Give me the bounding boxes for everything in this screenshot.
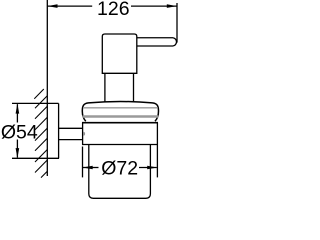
dimension line 126 (right segment) xyxy=(131,5,177,7)
Ø72 dimension line xyxy=(83,167,99,169)
svg-text:Ø72: Ø72 xyxy=(101,158,138,180)
126 left arrow xyxy=(47,4,57,8)
126 right arrow xyxy=(167,4,177,8)
svg-text:126: 126 xyxy=(97,0,130,20)
pump head xyxy=(102,34,137,73)
spout xyxy=(137,38,177,46)
svg-text:Ø54: Ø54 xyxy=(1,121,38,143)
Ø54 down arrow xyxy=(16,148,20,158)
Ø72 right arrow xyxy=(147,166,157,170)
wall plate (escutcheon), side view xyxy=(58,103,60,158)
Ø72 left arrow xyxy=(83,166,93,170)
clamp bump on ring inner left xyxy=(83,132,85,136)
technical drawing: wall-mounted soap dispenser with holder, dimensions 126 / Ø54 / Ø72 xyxy=(0,0,179,200)
extension line at spout tip xyxy=(176,3,178,43)
wall hatching xyxy=(34,89,47,178)
Ø54 extension lines / plate top+bottom xyxy=(12,102,59,104)
wall xyxy=(46,0,48,176)
Ø54 up arrow xyxy=(16,103,20,113)
holder ring xyxy=(82,122,158,124)
bottle body xyxy=(89,145,151,199)
holder arm xyxy=(59,127,83,129)
Ø72 extension lines xyxy=(82,147,84,178)
dimension line 126 (left segment) xyxy=(47,5,92,7)
dome gray lines xyxy=(83,107,158,109)
bottle shoulder dome xyxy=(82,102,158,122)
neck right edge xyxy=(133,73,135,102)
Ø54 dimension line xyxy=(16,104,18,122)
arrowheads xyxy=(16,4,177,169)
neck left edge xyxy=(104,73,106,102)
